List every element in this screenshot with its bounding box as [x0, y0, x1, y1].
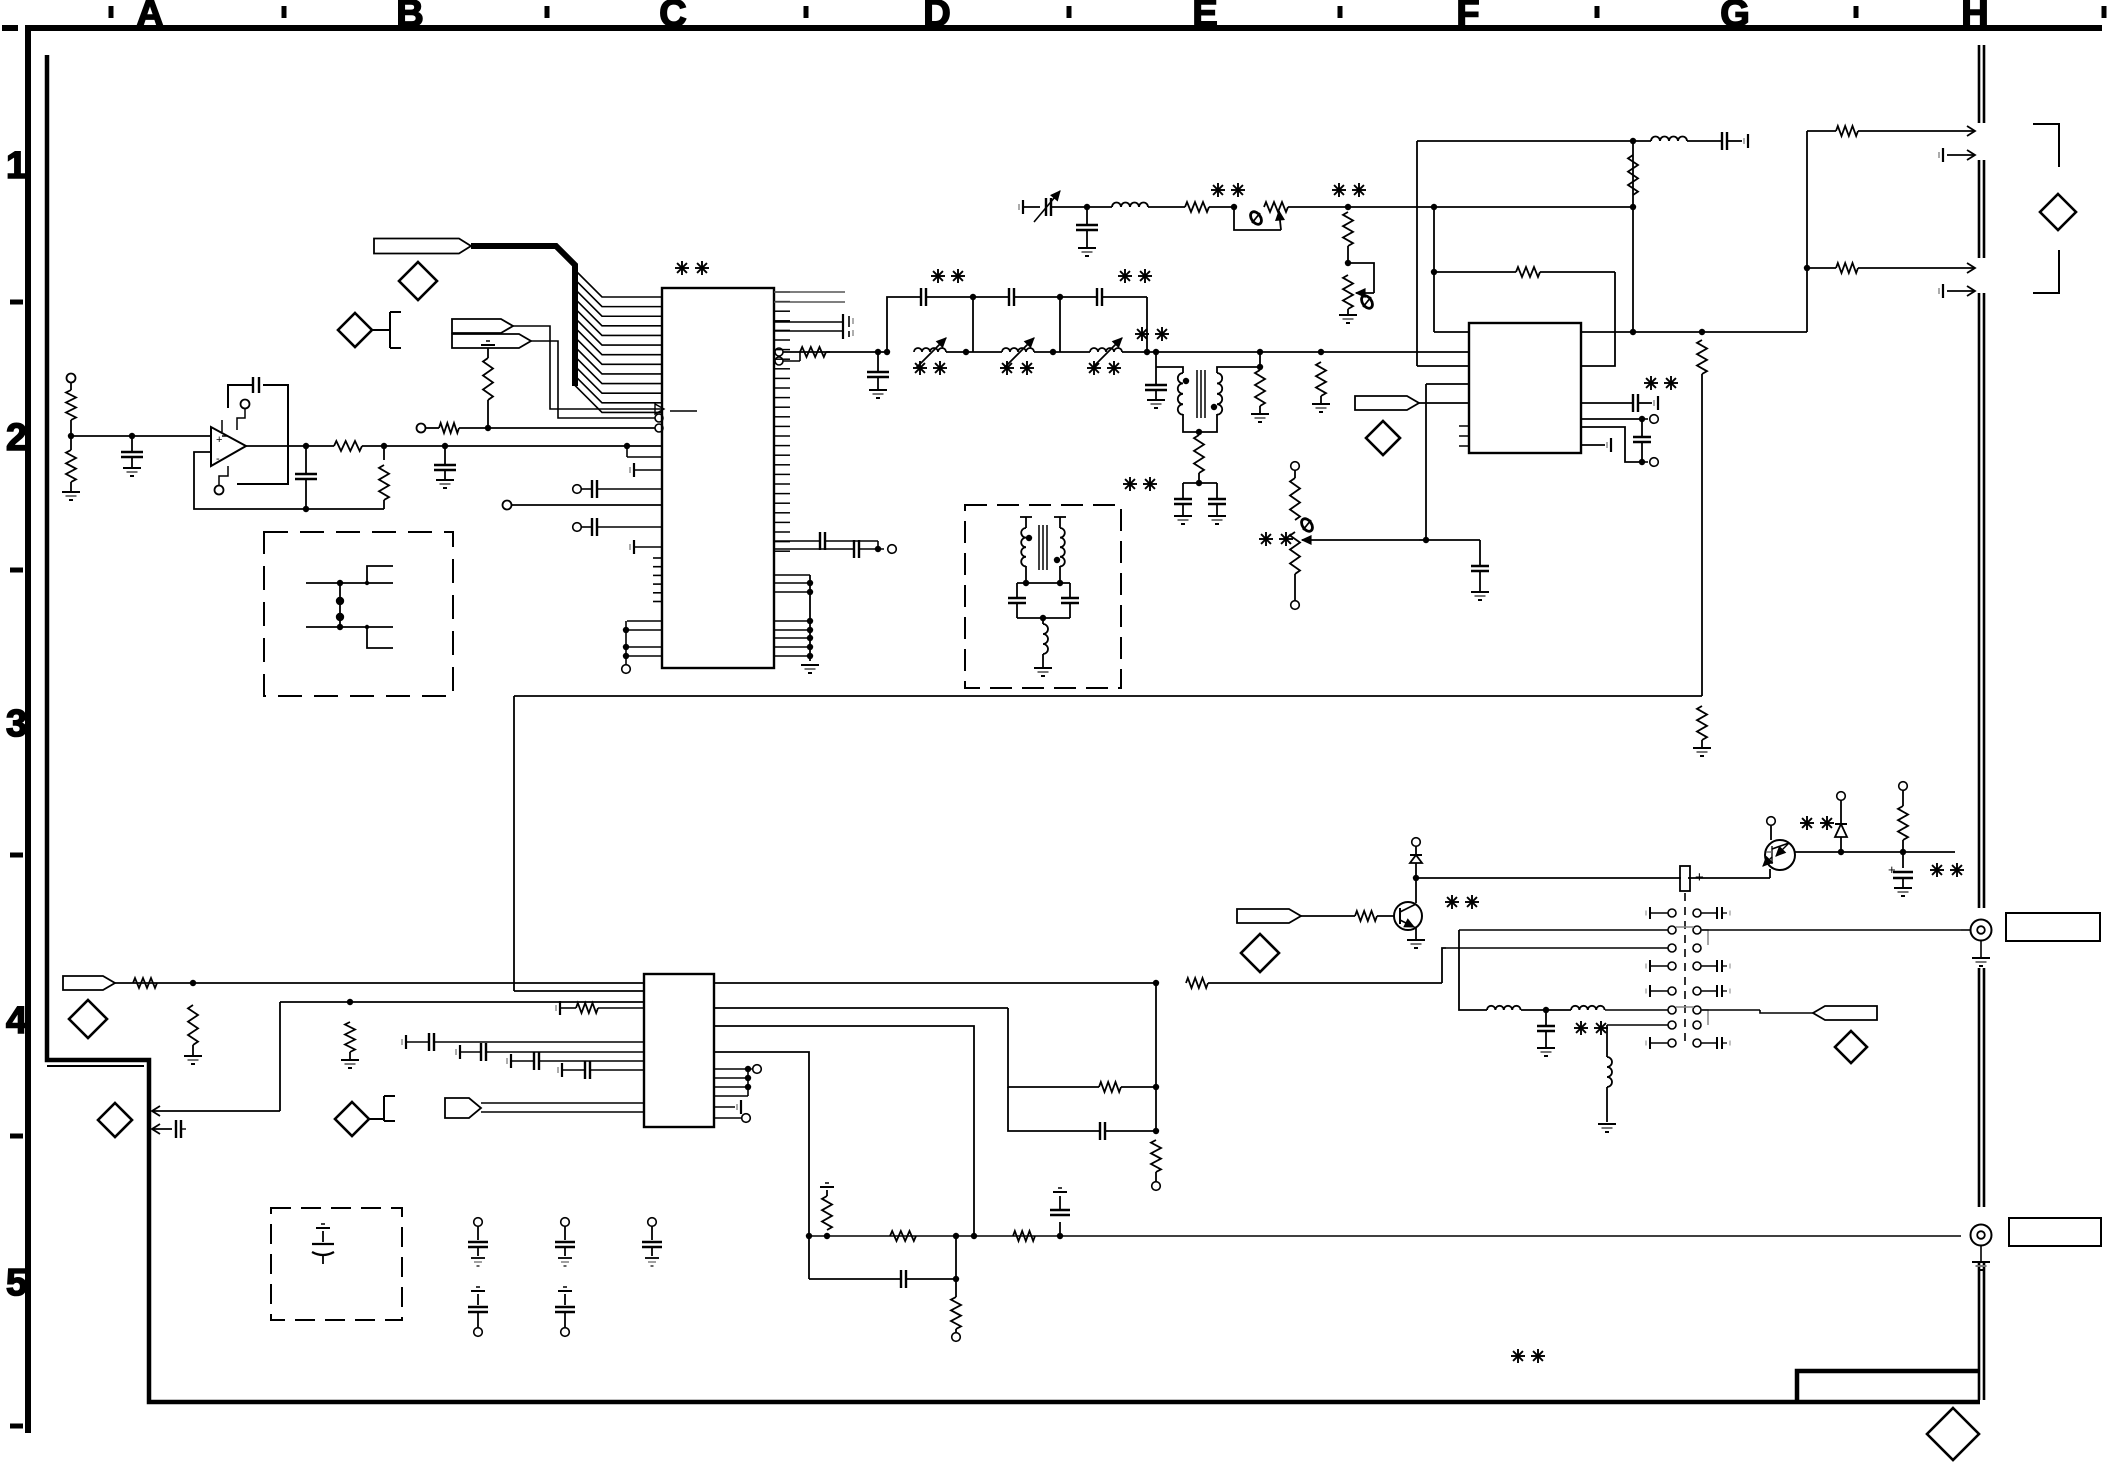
asterisks E2 [1123, 483, 1137, 485]
resistor R-fb shunt [383, 500, 385, 509]
transistor Q2 [1765, 840, 1795, 870]
connector bar right edge [1978, 45, 1981, 123]
net label Q1 [1237, 909, 1301, 923]
net label C1 [374, 239, 471, 254]
board outline notch bottom-right [1797, 1371, 1980, 1402]
capacitor C19 [1545, 1010, 1547, 1026]
dashed box B3 [264, 532, 453, 696]
trimmer wiper [1302, 539, 1419, 541]
wire to transformer [1147, 351, 1193, 353]
right vertical 1807 [1806, 131, 1808, 332]
F1 top edge [1417, 140, 1633, 142]
IC U3 body [1469, 323, 1581, 453]
label box J2 [2009, 1218, 2101, 1246]
IC U2 pin cap out2 [774, 548, 854, 550]
resistor R25 [345, 1022, 355, 1052]
resistor R18b [1697, 706, 1707, 740]
wire D1 to E1 [1288, 206, 1633, 208]
diamond A4 [69, 1000, 107, 1038]
switch row1 caps [1668, 909, 1676, 917]
svg-text:3: 3 [6, 703, 27, 745]
asterisks D1a [1211, 189, 1225, 191]
resistor R21 [1807, 267, 1836, 269]
diamond bottom [1927, 1408, 1979, 1460]
capacitor C15 [1721, 132, 1723, 150]
asterisks L1 [913, 367, 927, 369]
resistor R17 [1516, 267, 1540, 277]
asterisks U3 [1644, 382, 1658, 384]
asterisks L8 [1574, 1027, 1588, 1029]
IC U2 right lower bus [809, 575, 811, 661]
rail bottom [809, 1235, 1961, 1237]
pin cap row1 [405, 1035, 407, 1049]
bracket C4 [369, 1118, 384, 1120]
capacitor C-in [131, 436, 133, 452]
vertical 956 [953, 1233, 959, 1239]
frame ticks top [109, 6, 114, 18]
net label B2b [452, 334, 531, 348]
Q2 emitter wire [1795, 851, 1955, 853]
cap bottom link [809, 1278, 901, 1280]
capacitor C20 [316, 1227, 330, 1229]
asterisks C18 [1930, 869, 1944, 871]
capacitor C-out [444, 446, 446, 465]
pin out2 [714, 1007, 1008, 1009]
pin cap row4 [561, 1063, 563, 1077]
IC U2 right dual cap [774, 321, 843, 323]
IC U2 pin cap c [573, 523, 582, 532]
crystal X1 step bottom [367, 627, 393, 648]
capacitor Ctop3 [1060, 296, 1097, 298]
transformer T2 [1025, 517, 1027, 528]
polar cap F4 [1680, 866, 1690, 891]
resistor R-in top [67, 374, 76, 383]
IC U2 pin gnd-cap a [633, 463, 635, 477]
net label U4 dual [445, 1098, 481, 1118]
pin out2b [1008, 1008, 1099, 1087]
asterisks bottom [1511, 1355, 1525, 1357]
asterisks SW [1445, 901, 1459, 903]
border frame top [28, 25, 2102, 31]
resistor R13 [1316, 362, 1326, 396]
switch row3 [1668, 944, 1676, 952]
svg-text:B: B [396, 0, 423, 35]
switch dashed line [1684, 893, 1686, 1043]
wire row352 cont [1193, 351, 1468, 353]
svg-text:-: - [216, 453, 220, 465]
resistor R26 [1186, 978, 1208, 988]
resistor R24 [188, 1005, 198, 1045]
frame ticks left [10, 300, 23, 305]
resistor R28 [890, 1231, 916, 1241]
label box J1 [2006, 913, 2100, 941]
IC U3 right cap pin [1581, 402, 1633, 404]
capacitor col2 top [561, 1218, 570, 1227]
wire y272 [1434, 271, 1516, 273]
svg-text:A: A [136, 0, 163, 35]
wire cap 1131 [1008, 1087, 1100, 1131]
F1 right vertical [1632, 141, 1634, 332]
svg-text:1: 1 [6, 145, 27, 187]
asterisks right of L3 [1135, 333, 1149, 335]
pin cap row3 [510, 1054, 512, 1068]
inductor L6 [1042, 618, 1044, 624]
svg-text:H: H [1961, 0, 1988, 35]
wire pinB [514, 990, 644, 992]
electrolytic C18 [1902, 852, 1904, 868]
resistor Rb1 [1301, 915, 1355, 917]
IC U3 out pins [1581, 418, 1642, 420]
IC U3 gnd pin [1581, 444, 1605, 446]
capacitor Ctop2 [973, 296, 1009, 298]
IC U3 pin4 wire [1426, 383, 1469, 385]
riser mid1 [972, 297, 974, 352]
resistor R-fb series [334, 441, 362, 451]
asterisks R23 [1259, 538, 1273, 540]
wire pinC [280, 1001, 644, 1003]
Q1 emitter gnd [1414, 926, 1416, 928]
svg-text:+: + [1888, 862, 1896, 877]
crystal X1 top wire [306, 582, 393, 584]
pin out4 [714, 1052, 809, 1279]
svg-text:C: C [659, 0, 686, 35]
IC U3 pin3 wire [1417, 365, 1469, 367]
cap arrow H2b [1942, 284, 1944, 298]
bus thick wire C1 [471, 246, 575, 386]
transistor Q1 [1394, 902, 1422, 930]
wire sw7 down [1606, 1025, 1608, 1057]
potentiometer P1 [1234, 207, 1281, 230]
variable inductor L3 [1053, 351, 1090, 353]
capacitor col1 top [474, 1218, 483, 1227]
cap end D1 [1022, 200, 1024, 214]
resistor R18 [1697, 340, 1707, 374]
trimmer R23 [1291, 462, 1300, 471]
switch row4 caps [1668, 962, 1676, 970]
dashed box E2 [965, 505, 1121, 688]
border frame left [25, 25, 31, 1433]
capacitor C10 [877, 352, 879, 372]
capacitor C11b [1155, 367, 1157, 385]
arrow cap A5b [152, 1128, 172, 1130]
op-amp feedback box [228, 385, 253, 408]
wire D3 long [514, 695, 1702, 697]
asterisks filter top2 [1118, 275, 1132, 277]
op-amp power pin bottom [215, 486, 224, 495]
capacitor col2 bottom [558, 1290, 572, 1292]
vertical 1156 [1155, 983, 1157, 1131]
diamond A5 [98, 1103, 132, 1137]
capacitor col1 bottom [471, 1290, 485, 1292]
IC U2 output pin circles [775, 348, 783, 356]
op-amp inverting feedback wire [194, 452, 384, 509]
svg-text:4: 4 [6, 1000, 27, 1042]
IC U3 right pin row1 [1581, 331, 1633, 333]
capacitor col3 top [648, 1218, 657, 1227]
bracket B2 [372, 329, 390, 331]
resistor R15 [1343, 212, 1353, 246]
svg-text:G: G [1720, 0, 1750, 35]
asterisks L2 [1000, 367, 1014, 369]
net label U3 [1355, 396, 1419, 410]
arrow wire A5a [152, 1110, 176, 1112]
op-amp output wire [246, 445, 334, 447]
diamond D4 [1241, 934, 1279, 972]
coax connector J2 [1971, 1225, 1992, 1246]
frame tick top-left dash [2, 25, 18, 31]
IC U3 left stubs [1459, 425, 1469, 427]
wire Q1-Q2 [1416, 877, 1681, 879]
arrow to H1 [1955, 130, 1975, 132]
cap C17 [1057, 1233, 1063, 1239]
switch row6 out [1701, 1009, 1760, 1011]
svg-text:2: 2 [6, 417, 27, 459]
resistor R12 [1259, 352, 1261, 367]
IC U2 body [662, 288, 774, 668]
IC U2 pin junction [624, 443, 630, 449]
inductor L5 [1633, 140, 1651, 142]
asterisk label U2 [675, 267, 689, 269]
IC U2 right long stubs [774, 291, 845, 293]
IC U2 left pin mark [655, 404, 664, 414]
op-amp power pin top [241, 400, 250, 409]
resistor R29 [1013, 1231, 1035, 1241]
Q1 collector diode [1415, 878, 1417, 903]
asterisks D1b [1332, 189, 1346, 191]
diamond H1 [2040, 194, 2076, 230]
diamond G4 [1835, 1031, 1867, 1063]
op-amp U1 [211, 427, 246, 466]
resistor R-in bottom [70, 436, 72, 450]
crystal X1 center [339, 583, 341, 627]
asterisks D2 [1800, 822, 1814, 824]
wire pinA [115, 982, 644, 984]
resistor R-pullup [487, 400, 489, 428]
wire input [71, 435, 211, 437]
switch row6 [1668, 1006, 1676, 1014]
wire row332 [1633, 331, 1807, 333]
wire box-Q2 [1688, 877, 1770, 879]
off-page diamond B2 [338, 313, 372, 347]
crystal X1 step top [367, 566, 393, 583]
IC U2 left pin circles [655, 414, 663, 422]
vertical 514 [513, 696, 515, 991]
svg-text:F: F [1456, 0, 1479, 35]
IC U2 pin gnd-cap d [633, 540, 635, 554]
pin out3 [714, 1026, 974, 1236]
capacitor Ctop1 [920, 288, 922, 306]
u4 cap pin [714, 1106, 735, 1108]
capacitor C-fb [305, 446, 307, 474]
IC U2 left stub pins [653, 557, 662, 559]
resistor R14 [1185, 202, 1209, 212]
IC U2 left lower bus [627, 620, 662, 622]
top rail right drop [1146, 297, 1148, 352]
asterisks L3 [1087, 367, 1101, 369]
u4 circ pin [714, 1117, 741, 1119]
resistor R27 [824, 1233, 830, 1239]
switch row7 [1668, 1021, 1676, 1029]
wire to switch949 [1442, 948, 1446, 983]
resistor R-bias row [417, 424, 426, 433]
IC U4 body [644, 974, 714, 1127]
switch row8 caps [1668, 1039, 1676, 1047]
left bus 1459 [1459, 930, 1487, 1010]
trimmer cap D1 [1045, 198, 1047, 216]
resistor R16 [1628, 155, 1638, 195]
F1 inner vertical [1433, 207, 1435, 332]
wire 1129 [1007, 1086, 1009, 1088]
resistor below T1 [1194, 435, 1204, 473]
dashed box B5 [271, 1208, 402, 1320]
variable inductor L1 [914, 348, 946, 352]
capacitor C11 [1155, 352, 1157, 367]
resistor R10 [800, 347, 826, 357]
off-page diamond B1 [399, 262, 437, 300]
svg-text:5: 5 [6, 1262, 27, 1304]
crystal X1 bottom wire [306, 626, 393, 628]
inductor L4 [1087, 206, 1112, 208]
wire U2 out [783, 351, 830, 353]
board outline step double [47, 1065, 144, 1067]
diode D2 [1837, 792, 1846, 801]
capacitor C16 [1426, 539, 1480, 541]
net label B2a [452, 319, 513, 333]
svg-text:D: D [923, 0, 950, 35]
diamond F2 [1366, 421, 1400, 455]
bus fan to IC [575, 270, 662, 297]
asterisks filter top1 [931, 275, 945, 277]
switch row2 out [1701, 929, 1961, 931]
ground A2 [62, 491, 80, 493]
F1 left vertical [1416, 141, 1418, 366]
net label G4 [1813, 1006, 1877, 1020]
net label A4 [63, 976, 115, 990]
Q2 collector [1770, 826, 1772, 840]
switch row2 [1668, 926, 1676, 934]
pin out1 [714, 982, 1156, 984]
vertical 280 [279, 1002, 281, 1111]
top rail link [887, 297, 921, 352]
switch row5 caps [1668, 987, 1676, 995]
u4 right bus [714, 1068, 748, 1070]
pin cap-res D [559, 1001, 561, 1015]
inductor L8 [1571, 1006, 1605, 1010]
transformer T1 [1156, 367, 1183, 373]
pin cap row2 [459, 1045, 461, 1059]
resistor R31 [1899, 782, 1908, 791]
arrow to H2 [1955, 267, 1975, 269]
junction cap D1 [1084, 204, 1090, 210]
IC U2 right pin stubs [774, 291, 790, 293]
variable inductor L2 [966, 351, 1002, 353]
coax connector J1 [1961, 929, 1971, 931]
potentiometer P2 [1348, 263, 1374, 293]
bracket H1 [2033, 124, 2059, 167]
IC U3 pin1 wire [1434, 331, 1469, 333]
wire to pin [503, 501, 512, 510]
riser mid2 [1059, 297, 1061, 352]
IC U2 pin cap b [573, 485, 582, 494]
cap arrow H1b [1942, 148, 1944, 162]
resistor R19 [1807, 130, 1836, 132]
IC U2 pin cap out1 [774, 540, 820, 542]
inductor L7 [1487, 1006, 1521, 1010]
svg-text:+: + [216, 434, 222, 446]
cap pair below T1 [1183, 482, 1217, 484]
resistor R30 [1151, 1140, 1161, 1172]
diamond C4 [335, 1102, 369, 1136]
cap loop E2 [1017, 582, 1070, 584]
svg-text:E: E [1192, 0, 1217, 35]
